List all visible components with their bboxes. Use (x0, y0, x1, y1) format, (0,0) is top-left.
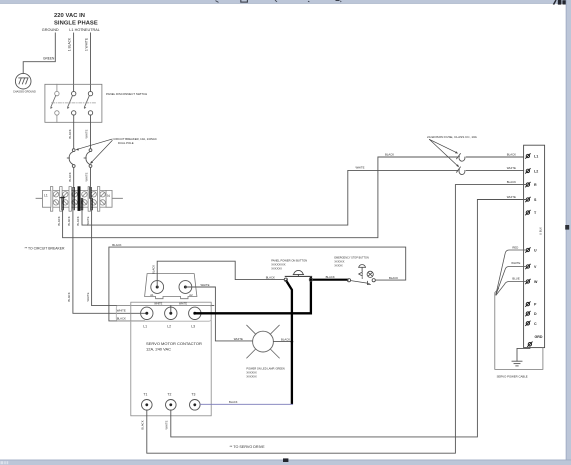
L1 end label box (43, 190, 51, 207)
lamp rays (247, 325, 280, 358)
wire: W phase (BLUE) (496, 282, 526, 296)
svg-text:XXXXXX: XXXXXX (246, 375, 257, 379)
svg-text:A1: A1 (150, 293, 154, 297)
svg-text:WHITE: WHITE (507, 166, 516, 170)
wire: strip exit down, neutral bus to contactor (92, 210, 214, 306)
power on button (284, 270, 312, 281)
right strip terminal D (526, 311, 531, 316)
svg-text:WHITE: WHITE (154, 303, 162, 306)
svg-text:XXXXX: XXXXX (334, 265, 343, 268)
right strip terminal R (526, 182, 531, 187)
node: 220 VAC IN SINGLE PHASE title (42, 13, 100, 32)
window chrome: right sidebar (566, 0, 571, 465)
svg-text:BLACK: BLACK (326, 275, 335, 279)
top-right glyphs (553, 0, 566, 5)
svg-text:WHITE: WHITE (234, 337, 243, 341)
svg-text:1 BLACK: 1 BLACK (68, 37, 72, 51)
right edge small marker (565, 225, 569, 230)
svg-text:CHASSIS GROUND: CHASSIS GROUND (13, 91, 36, 94)
contactor terminal T1 (142, 400, 153, 411)
callout arrows to breakers (76, 139, 113, 164)
svg-text:BLACK: BLACK (57, 216, 61, 225)
svg-text:WHITE: WHITE (356, 166, 365, 170)
ground wire from GRD terminal (517, 346, 530, 361)
servo power cable outline (495, 289, 543, 370)
callout arrows to fuses (430, 140, 460, 168)
svg-text:SINGLE PHASE: SINGLE PHASE (54, 21, 98, 27)
svg-text:R: R (534, 183, 537, 187)
svg-text:NEUTRAL: NEUTRAL (82, 28, 100, 32)
svg-text:T3: T3 (191, 392, 195, 396)
svg-text:PANEL DISCONNECT SWITCH: PANEL DISCONNECT SWITCH (106, 92, 147, 96)
svg-text:BLACK: BLACK (281, 337, 290, 341)
svg-text:D: D (534, 312, 537, 316)
right strip terminal V (526, 264, 531, 269)
svg-text:L1: L1 (143, 324, 147, 328)
svg-text:BLACK: BLACK (117, 317, 126, 321)
svg-text:A2: A2 (189, 293, 193, 297)
svg-text:1 WHITE: 1 WHITE (84, 38, 88, 51)
svg-text:BLUE: BLUE (512, 277, 519, 281)
right strip terminal U (526, 248, 531, 253)
wire: lamp right to thick riser (273, 341, 292, 343)
contactor terminal L3 (189, 307, 201, 319)
svg-text:220 VAC IN: 220 VAC IN (54, 13, 85, 19)
svg-text:BLACK: BLACK (507, 152, 516, 156)
left terminal strip: outer body (43, 190, 113, 207)
circuit breaker 1 (10A dual pole, left) (67, 149, 75, 187)
window chrome: bottom bar (0, 460, 571, 465)
svg-text:L2: L2 (167, 324, 171, 328)
thick wire: button right to e-stop left (312, 279, 347, 281)
emergency stop button (347, 265, 375, 285)
svg-text:BLACK: BLACK (266, 276, 275, 280)
svg-text:T: T (534, 211, 537, 215)
svg-text:C: C (534, 322, 537, 326)
svg-text:V: V (534, 265, 537, 269)
svg-text:BLACK: BLACK (229, 400, 238, 404)
wire: A2 right and down to lamp (185, 287, 252, 341)
svg-text:** TO SERVO DRIVE: ** TO SERVO DRIVE (230, 445, 266, 449)
power on LED lamp (253, 331, 274, 352)
mechanical linkage (dash-dot) (52, 102, 97, 104)
right strip terminal C (526, 321, 531, 326)
svg-text:2A EDISON FUSE, CLASS CC, 10A: 2A EDISON FUSE, CLASS CC, 10A (427, 135, 478, 139)
wire: neutral into disconnect switch (90, 33, 92, 91)
circuit breaker 2 (10A dual pole, right) (84, 149, 92, 187)
ground symbol (512, 361, 522, 366)
svg-text:DUAL POLE: DUAL POLE (118, 141, 134, 145)
svg-text:** TO CIRCUIT BREAKER: ** TO CIRCUIT BREAKER (25, 246, 65, 250)
svg-text:WHITE: WHITE (86, 292, 90, 301)
switch pole 3 (neutral) (84, 91, 93, 115)
coil trapezoid (145, 274, 197, 299)
svg-text:WHITE: WHITE (511, 261, 520, 265)
fuse 2 (2A Edison, on bus B) (457, 167, 524, 175)
thick wire: button left contact down to T3 node (286, 281, 292, 403)
right strip terminal P (526, 302, 531, 307)
terminal strip hatched screw cells (53, 192, 105, 205)
svg-text:12A, 240 VAC: 12A, 240 VAC (146, 346, 171, 351)
svg-text:RED: RED (512, 246, 518, 250)
svg-text:T2: T2 (167, 392, 171, 396)
svg-text:BLACK: BLACK (385, 152, 394, 156)
contactor terminal T2 (166, 400, 177, 411)
svg-text:L1: L1 (44, 194, 48, 198)
svg-text:EMERGENCY STOP BUTTON: EMERGENCY STOP BUTTON (334, 256, 369, 259)
svg-text:WHITE: WHITE (201, 283, 210, 287)
contactor outer box (131, 302, 211, 416)
svg-text:BLACK: BLACK (67, 216, 71, 225)
svg-text:U: U (534, 249, 537, 253)
svg-text:WHITE: WHITE (85, 129, 89, 138)
svg-text:WHITE: WHITE (86, 216, 90, 225)
svg-text:BLACK: BLACK (507, 180, 516, 184)
wire: T1 down to servo-drive bus (to R) (147, 185, 526, 454)
svg-text:BLACK: BLACK (67, 292, 71, 301)
wire: switch pole3 to breaker 2 (90, 115, 92, 149)
svg-text:S: S (534, 198, 537, 202)
svg-text:WHITE: WHITE (117, 309, 126, 313)
coil terminal A2 (179, 281, 192, 294)
svg-text:XXXXXX: XXXXXX (246, 371, 257, 375)
wire: strip exit to bus B (to fuse 2 / right strip L2) (82, 170, 457, 225)
svg-text:T1: T1 (143, 392, 147, 396)
svg-text:XXXXXXXX: XXXXXXXX (271, 263, 286, 267)
svg-text:POWER ON LED LAMP, GREEN: POWER ON LED LAMP, GREEN (246, 366, 284, 370)
panel disconnect switch box (45, 84, 102, 122)
svg-text:SERVO POWER CABLE: SERVO POWER CABLE (497, 375, 528, 379)
wire: L1 hot into disconnect switch (73, 33, 75, 91)
contactor terminal L1 (141, 307, 153, 319)
svg-text:BLACK: BLACK (112, 243, 121, 247)
svg-text:L1 HOT: L1 HOT (69, 28, 83, 32)
terminal strip separator (thick black) (78, 186, 81, 211)
wire: U phase (RED) (496, 250, 526, 294)
wire: T2 down to servo-drive bus (to S) (171, 200, 526, 437)
right strip terminal L2 (526, 169, 531, 174)
contactor terminal L2 (165, 307, 177, 319)
svg-text:WHITE: WHITE (85, 172, 89, 181)
right strip terminal S (526, 197, 531, 202)
svg-text:WHITE: WHITE (165, 420, 169, 429)
toolbar icon remnants on top bar (216, 0, 342, 2)
svg-text:BLACK: BLACK (68, 129, 72, 138)
svg-text:XXXXXX: XXXXXX (334, 261, 344, 264)
svg-text:GRD: GRD (535, 335, 543, 339)
svg-text:W: W (534, 280, 538, 284)
bottom small dark marker (283, 458, 288, 462)
wire: strip exit to bus A (to fuse 1 / right strip L1) (63, 157, 458, 238)
svg-text:PANEL POWER ON BUTTON: PANEL POWER ON BUTTON (271, 258, 307, 262)
svg-text:XXXXXX: XXXXXX (271, 267, 282, 271)
left terminal strip: centerline (36, 197, 123, 199)
junction dot (291, 340, 294, 343)
svg-text:BLACK: BLACK (141, 420, 145, 429)
wire: L1 node up and across to e-stop (wire C) (109, 247, 406, 321)
svg-text:L3: L3 (191, 324, 195, 328)
svg-text:BLACK: BLACK (389, 276, 398, 280)
switch pole 2 (L1) (67, 91, 76, 115)
black wire clamp marks in strip (60, 188, 92, 210)
wire: ground (green) from GROUND label to chassis ground (23, 33, 55, 73)
svg-text:L1: L1 (534, 155, 538, 159)
right strip terminal GRD (528, 342, 533, 347)
svg-text:GREEN: GREEN (43, 57, 55, 61)
chassis ground symbol (15, 73, 31, 89)
wire: V phase (WHITE) (496, 267, 526, 295)
contactor terminal T3 (190, 400, 201, 411)
switch pole 1 (ground, unused) (50, 84, 59, 122)
svg-text:P: P (534, 303, 537, 307)
coil terminal A1 (151, 281, 164, 294)
svg-text:WHITE: WHITE (507, 195, 516, 199)
right strip terminal W (526, 279, 531, 284)
terminal strip screw posts (50, 187, 106, 212)
fuse 1 (2A Edison, on bus A) (457, 154, 524, 162)
wire: A1 up and over to power button (157, 261, 284, 287)
svg-text:U BLK: U BLK (539, 227, 543, 235)
svg-text:L2: L2 (534, 170, 538, 174)
right strip terminal L1 (526, 154, 531, 159)
wire: T3 to thick riser (blue) (200, 403, 292, 405)
right strip terminal T (526, 210, 531, 215)
svg-text:BLACK: BLACK (151, 265, 155, 274)
svg-text:BLACK: BLACK (76, 216, 80, 225)
N end label box (106, 190, 112, 207)
wire: switch pole2 to breaker 1 (73, 115, 75, 149)
window chrome: top bar (0, 0, 571, 3)
svg-text:BLACK: BLACK (68, 172, 72, 181)
right terminal strip box (524, 145, 545, 347)
contactor L-row rounded frame (116, 305, 211, 321)
svg-text:GROUND: GROUND (42, 28, 59, 32)
svg-text:WHITE: WHITE (179, 303, 187, 306)
thick wire: L3 to power button right contact (195, 278, 311, 313)
wire: strip exit down to contactor L1 (73, 210, 147, 313)
